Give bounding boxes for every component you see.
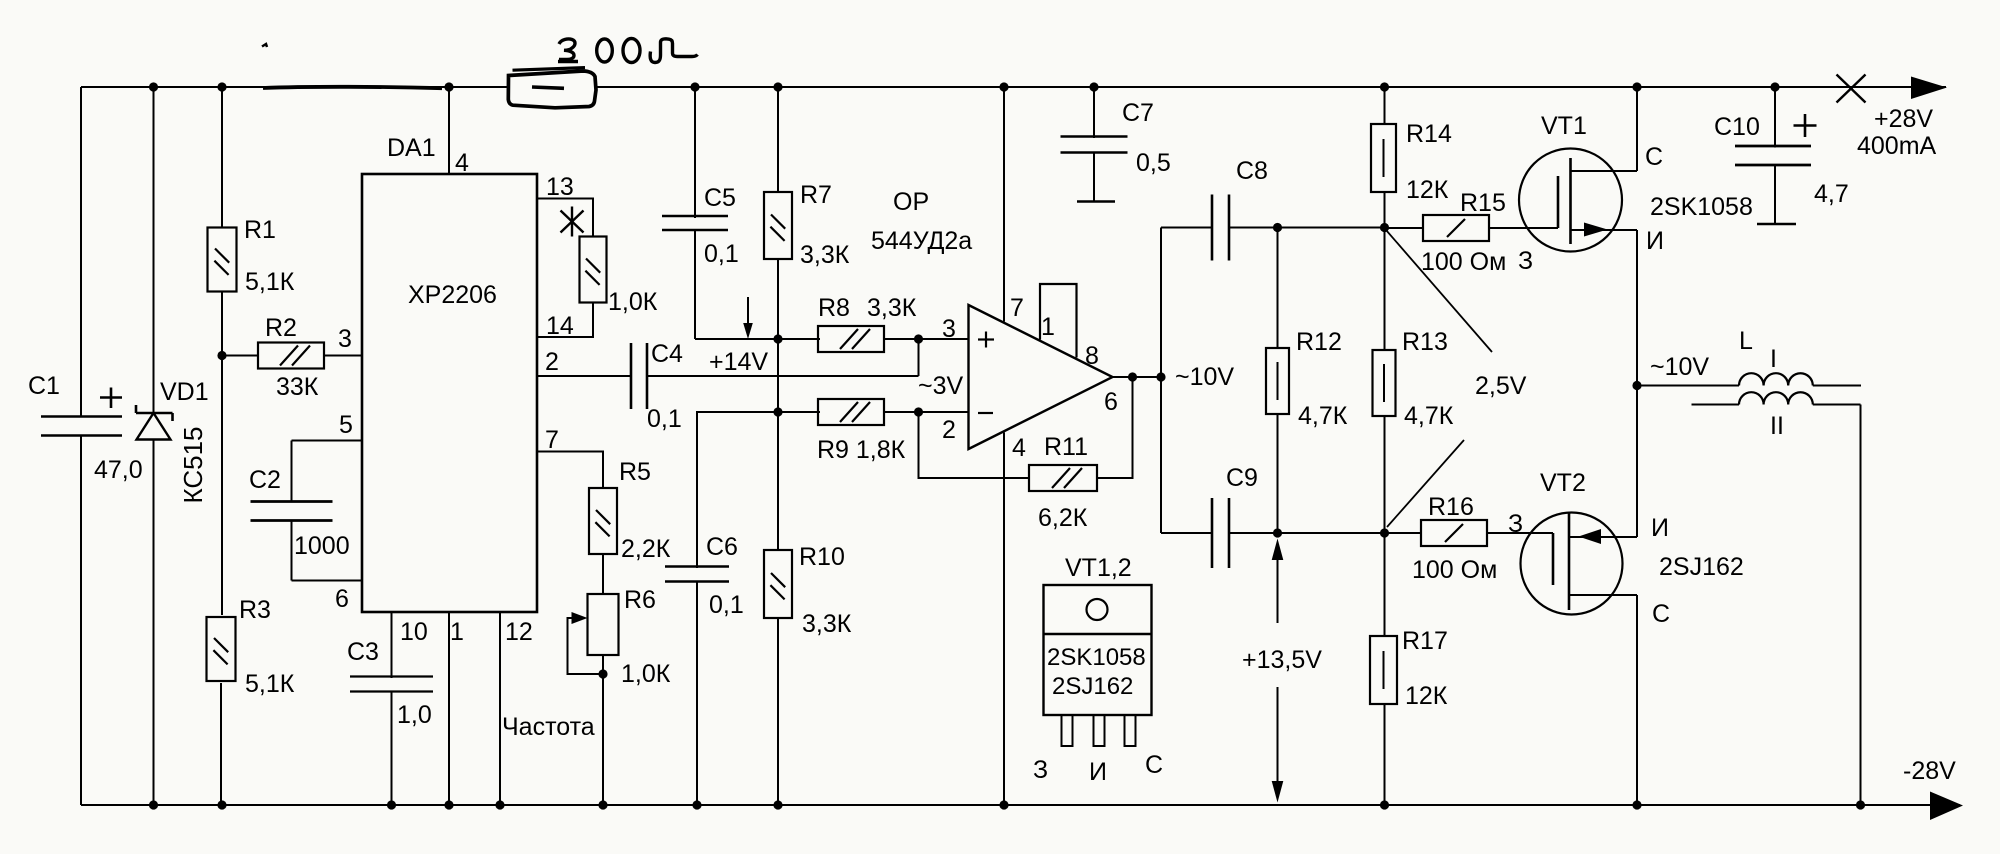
wire DA1 pin 10 to C3 [391,612,393,678]
capacitor C10 [1735,145,1811,148]
svg-text:4: 4 [455,149,469,177]
svg-text:3: 3 [942,315,956,343]
wire R15 left [1385,227,1424,229]
wire C5 bottom [694,230,696,339]
svg-text:544УД2а: 544УД2а [871,227,972,255]
resistor R5 [589,488,617,554]
svg-text:0,1: 0,1 [709,591,744,619]
svg-text:2SK1058: 2SK1058 [1047,644,1146,671]
svg-text:12К: 12К [1406,176,1449,204]
wire R6 bottom [602,655,604,674]
hand-drawn thick wire overline [263,87,442,88]
svg-text:R16: R16 [1428,493,1474,521]
svg-text:3,3К: 3,3К [800,241,850,269]
wire R7 bottom to node A [777,259,779,339]
wire C8 right [1229,227,1385,229]
svg-text:R11: R11 [1044,433,1088,461]
junction op-amp pin3 node [914,334,923,343]
wire op-amp output [1113,376,1162,378]
svg-text:З: З [1518,247,1533,275]
wire op-amp pin 4 supply [1003,433,1005,806]
svg-text:100 Ом: 100 Ом [1421,248,1506,276]
svg-text:VD1: VD1 [160,378,209,406]
junction top bus / R14 [1380,82,1389,91]
junction node R2 [217,351,226,360]
junction bottom bus / op pin4 [999,800,1008,809]
junction R12 top [1273,223,1282,232]
svg-text:ОР: ОР [893,188,929,216]
wire C6 bottom [696,582,698,806]
wire feedback from pin2 node [919,412,1030,478]
junction op-amp pin2 node [914,407,923,416]
wire node B to C6 [697,412,778,568]
svg-text:2: 2 [545,348,559,376]
resistor 1,0K between pins 13-14 [580,237,607,303]
svg-text:3,3К: 3,3К [867,294,917,322]
junction node A +14V [773,334,782,343]
op-amp U1 triangle [969,305,1113,449]
resistor R2 [258,343,324,369]
svg-text:14: 14 [546,312,574,340]
wire R6 to bus [602,674,604,805]
wire R1 to R2 node [221,292,223,356]
transistor VT1 2SK1058 [1519,149,1622,252]
svg-text:2SJ162: 2SJ162 [1659,553,1744,581]
junction bottom bus / DA1 pin1 [444,800,453,809]
wire R9 right [884,411,919,413]
svg-text:33К: 33К [276,373,319,401]
resistor R8 [818,326,884,352]
wire VT1 drain up [1636,87,1638,171]
svg-text:C2: C2 [249,466,281,494]
svg-text:12К: 12К [1405,682,1448,710]
resistor R17 [1370,636,1397,704]
junction R6 wiper node [598,669,607,678]
svg-text:II: II [1770,412,1784,440]
junction feedback node [1128,372,1137,381]
polarity + of C1 [100,396,122,399]
svg-text:C9: C9 [1226,464,1258,492]
wire R13 bottom lead [1384,416,1386,533]
wire C8 left [1161,227,1213,229]
svg-text:C4: C4 [651,340,683,368]
capacitor C7 [1061,135,1128,138]
svg-text:С: С [1145,751,1163,779]
junction top bus / R7 [773,82,782,91]
wire DA1 pin 1 down [448,612,450,805]
wire R8 left [778,338,820,340]
svg-text:R2: R2 [265,314,297,342]
wire C2 top lead [291,441,293,503]
fuse X mark on +28V rail [1837,75,1866,103]
polarity + of C10 [1794,124,1817,127]
svg-text:10: 10 [400,618,428,646]
resistor R15 [1423,215,1489,241]
svg-text:7: 7 [545,426,559,454]
svg-text:2,2К: 2,2К [621,535,671,563]
wire R17 bottom [1384,704,1386,805]
junction bottom bus / R17 [1380,800,1389,809]
junction bottom bus / R6 [598,800,607,809]
wire R10 bottom [777,618,779,805]
star symbol [571,207,573,237]
svg-text:З: З [1033,756,1048,784]
junction bottom bus / R10 [773,800,782,809]
wire +28V top bus right part [598,86,1947,88]
svg-text:1: 1 [1041,313,1055,341]
svg-text:C8: C8 [1236,157,1268,185]
capacitor C5 [662,215,728,218]
wire node A to node B [777,339,779,412]
wire +28V top bus left part [81,86,507,88]
svg-text:2,5V: 2,5V [1475,372,1527,400]
svg-text:2SK1058: 2SK1058 [1650,193,1753,221]
svg-text:2: 2 [942,416,956,444]
wire R14 top [1384,87,1386,124]
svg-text:C6: C6 [706,533,738,561]
wire DA1 pin 12 down [499,612,501,805]
stray pencil mark [262,44,267,47]
svg-text:+13,5V: +13,5V [1242,646,1322,674]
junction top bus / C5 [690,82,699,91]
resistor R3 [207,617,236,681]
hand-written 300 value digit 0 first [597,39,613,62]
terminal arrow +28V [1911,77,1947,100]
svg-text:С: С [1652,600,1670,628]
measure arrow +13,5V [1277,545,1279,623]
junction bottom bus / R3 [217,800,226,809]
zener diode VD1 [136,412,173,415]
svg-text:VT2: VT2 [1540,469,1586,497]
svg-text:R12: R12 [1296,328,1342,356]
svg-text:6,2К: 6,2К [1038,504,1088,532]
resistor R16 [1421,520,1487,546]
svg-text:3,3К: 3,3К [802,610,852,638]
resistor R14 [1371,124,1396,192]
svg-text:~10V: ~10V [1175,363,1234,391]
hand-written 300 value digit 3 [559,39,575,60]
junction bottom bus / C3 [387,800,396,809]
op-amp - input sign [978,412,993,414]
wire C5 top [694,87,696,218]
resistor R11 [1029,465,1097,491]
svg-text:1000: 1000 [294,532,350,560]
resistor R1 [208,228,237,292]
junction top bus / DA1 pin4 [444,82,453,91]
junction bottom bus / winding II [1856,800,1865,809]
wire to inductor [1637,385,1739,387]
capacitor C4 [630,343,633,409]
wire op-amp pin 7 supply [1003,87,1005,322]
wire C2 bottom lead [291,521,293,581]
wire R1 top [221,87,223,228]
wire R12 bottom lead [1277,414,1279,533]
wire R12 top lead [1277,228,1279,349]
wire DA1 pin 2 stub [537,375,631,377]
svg-text:-28V: -28V [1903,757,1956,785]
junction top bus / VD1 [149,82,158,91]
svg-text:4,7: 4,7 [1814,180,1849,208]
junction node B [773,407,782,416]
arrow +14V probe [747,297,749,326]
svg-text:+14V: +14V [709,348,768,376]
resistor R7 [764,192,792,259]
wire R15 to VT1 gate [1489,227,1558,229]
svg-text:VT1: VT1 [1541,112,1587,140]
wire C2 to DA1 pin 6 [292,580,363,582]
svg-text:0,5: 0,5 [1136,149,1171,177]
junction top bus / C7 [1089,82,1098,91]
wire DA1 pin 4 [448,87,450,174]
svg-text:5: 5 [339,411,353,439]
junction bottom bus / VT2 drain [1632,800,1641,809]
resistor R10 [764,550,792,618]
wire VT1 source down [1636,230,1638,537]
svg-text:И: И [1646,227,1664,255]
svg-text:DA1: DA1 [387,134,436,162]
inductor L winding II [1692,404,1740,406]
svg-text:КС515: КС515 [178,426,208,503]
wire R16 to VT2 gate [1487,532,1553,534]
svg-text:C5: C5 [704,184,736,212]
svg-text:0,1: 0,1 [647,405,682,433]
capacitor C9 [1211,498,1214,568]
wire R2 node to R3 [221,356,223,616]
wire C10 top [1774,87,1776,148]
wire C9 right [1229,532,1385,534]
wire VT2 drain down [1636,595,1638,805]
svg-text:1,0К: 1,0К [608,288,658,316]
wire node B to R10 [777,412,779,550]
svg-text:L: L [1739,327,1753,355]
svg-text:R17: R17 [1402,627,1448,655]
junction top bus / R1 [217,82,226,91]
svg-text:R8: R8 [818,294,850,322]
pointer line lower 2.5V [1387,440,1464,527]
hand-drawn 300 Ohm resistor over bus [508,71,596,108]
wire C1 top [80,87,82,417]
svg-text:~10V: ~10V [1650,353,1709,381]
svg-text:C1: C1 [28,372,60,400]
wire DA1 pin 5 stub [292,440,363,442]
junction speaker node ~10V [1632,381,1641,390]
junction output node ~10V [1156,372,1165,381]
svg-text:R3: R3 [239,596,271,624]
svg-text:1,0К: 1,0К [621,660,671,688]
hand-written Ohm symbol [650,39,697,63]
wire R14 bottom [1384,192,1386,228]
IC DA1 body [362,174,537,612]
wire C4 riser to pin3 node [918,339,920,376]
svg-text:3: 3 [338,325,352,353]
package drawing VT1,2 [1044,585,1152,715]
resistor R12 [1266,348,1289,414]
wire VD1 top [153,87,155,414]
svg-text:И: И [1651,514,1669,542]
wire R16 left [1385,532,1422,534]
svg-text:R1: R1 [244,216,276,244]
wire DA1 pin 13 stub [537,199,593,237]
svg-text:C3: C3 [347,638,379,666]
capacitor C3 [350,675,433,677]
svg-text:C10: C10 [1714,113,1760,141]
transistor VT2 2SJ162 [1521,513,1623,615]
hand-drawn dash inside 300 Ohm resistor [532,87,564,88]
wire C7 bottom stub [1093,153,1095,202]
svg-text:+28V: +28V [1874,105,1933,133]
svg-text:R15: R15 [1460,189,1506,217]
wire R7 top [777,87,779,192]
terminal arrow -28V [1930,792,1963,821]
resistor R13 [1373,350,1396,416]
svg-text:4,7К: 4,7К [1404,402,1454,430]
svg-text:И: И [1089,758,1107,786]
wire R9 left [778,411,820,413]
svg-text:2SJ162: 2SJ162 [1052,673,1133,700]
svg-text:R6: R6 [624,586,656,614]
svg-text:R10: R10 [799,543,845,571]
svg-text:R9 1,8К: R9 1,8К [817,436,906,464]
junction bottom bus / C6 [692,800,701,809]
trimmer R6 [588,594,619,655]
wire R8 right [884,338,919,340]
svg-text:6: 6 [1104,388,1118,416]
op-amp balance pins bracket [1040,284,1077,358]
svg-text:1: 1 [450,618,464,646]
wire C10 bottom stub [1774,165,1776,224]
svg-text:4,7К: 4,7К [1298,402,1348,430]
wire C1 bottom [80,436,82,806]
wire to DA1 pin 14 [537,303,593,338]
op-amp + input sign [978,338,994,340]
wire R17 top [1384,533,1386,636]
svg-text:47,0: 47,0 [94,456,143,484]
svg-text:1,0: 1,0 [397,701,432,729]
wire R2 to DA1 pin 3 [324,355,362,357]
junction bottom bus / DA1 pin12 [495,800,504,809]
open terminal of C10 [1757,223,1796,226]
wire R2 left [222,355,258,357]
wire into op-amp pin 2 [919,411,969,413]
svg-text:R5: R5 [619,458,651,486]
svg-text:8: 8 [1085,342,1099,370]
junction R14 bottom node [1380,223,1389,232]
svg-text:4: 4 [1012,434,1026,462]
junction bottom bus / VD1 [149,800,158,809]
wire C4 to op-amp input divider [647,375,919,377]
wire C9 left [1161,532,1213,534]
wire R3 bottom [220,683,222,805]
wire into op-amp pin 3 [919,338,969,340]
wire R13 top lead [1384,228,1386,351]
wire DA1 pin 7 stub [537,452,603,489]
wire C7 top [1093,87,1095,138]
capacitor C1 [41,415,122,418]
junction top bus / C10 [1770,82,1779,91]
svg-text:7: 7 [1010,294,1024,322]
wire R5 to R6 [602,554,604,594]
wire VD1 bottom [153,440,155,806]
svg-text:100 Ом: 100 Ом [1412,556,1497,584]
wire feedback to output [1097,377,1133,478]
svg-text:12: 12 [505,618,533,646]
wire R6 wiper [568,618,604,674]
svg-text:I: I [1770,345,1777,373]
svg-text:0,1: 0,1 [704,240,739,268]
wire C5 to node A [695,338,778,340]
wire -28V bottom bus [81,804,1960,806]
svg-text:5,1К: 5,1К [245,268,295,296]
svg-text:С: С [1645,143,1663,171]
junction top bus / VT1 drain [1632,82,1641,91]
capacitor C6 [665,565,729,568]
junction R12 bottom node [1273,528,1282,537]
svg-text:R7: R7 [800,181,832,209]
wire C3 bottom [391,692,393,806]
svg-text:XP2206: XP2206 [408,281,497,309]
svg-text:400mA: 400mA [1857,132,1937,160]
svg-text:З: З [1508,510,1523,538]
svg-text:VT1,2: VT1,2 [1065,554,1132,582]
capacitor C2 [251,500,333,503]
wire winding II to -28V bus [1860,405,1862,806]
capacitor C8 [1211,195,1214,261]
pointer line upper 2.5V [1386,230,1492,352]
inductor L winding I [1739,373,1813,385]
svg-text:13: 13 [546,173,574,201]
open terminal of C7 [1077,200,1115,203]
svg-text:C7: C7 [1122,99,1154,127]
wire output vertical [1160,228,1162,534]
svg-text:5,1К: 5,1К [245,670,295,698]
svg-text:Частота: Частота [502,713,595,741]
junction R16 left node [1380,528,1389,537]
hand-written 300 value digit 0 second [623,39,640,63]
junction top bus / op pin7 [999,82,1008,91]
svg-text:6: 6 [335,585,349,613]
svg-text:R14: R14 [1406,120,1452,148]
svg-text:R13: R13 [1402,328,1448,356]
svg-text:~3V: ~3V [918,372,964,400]
resistor R9 [818,399,884,425]
